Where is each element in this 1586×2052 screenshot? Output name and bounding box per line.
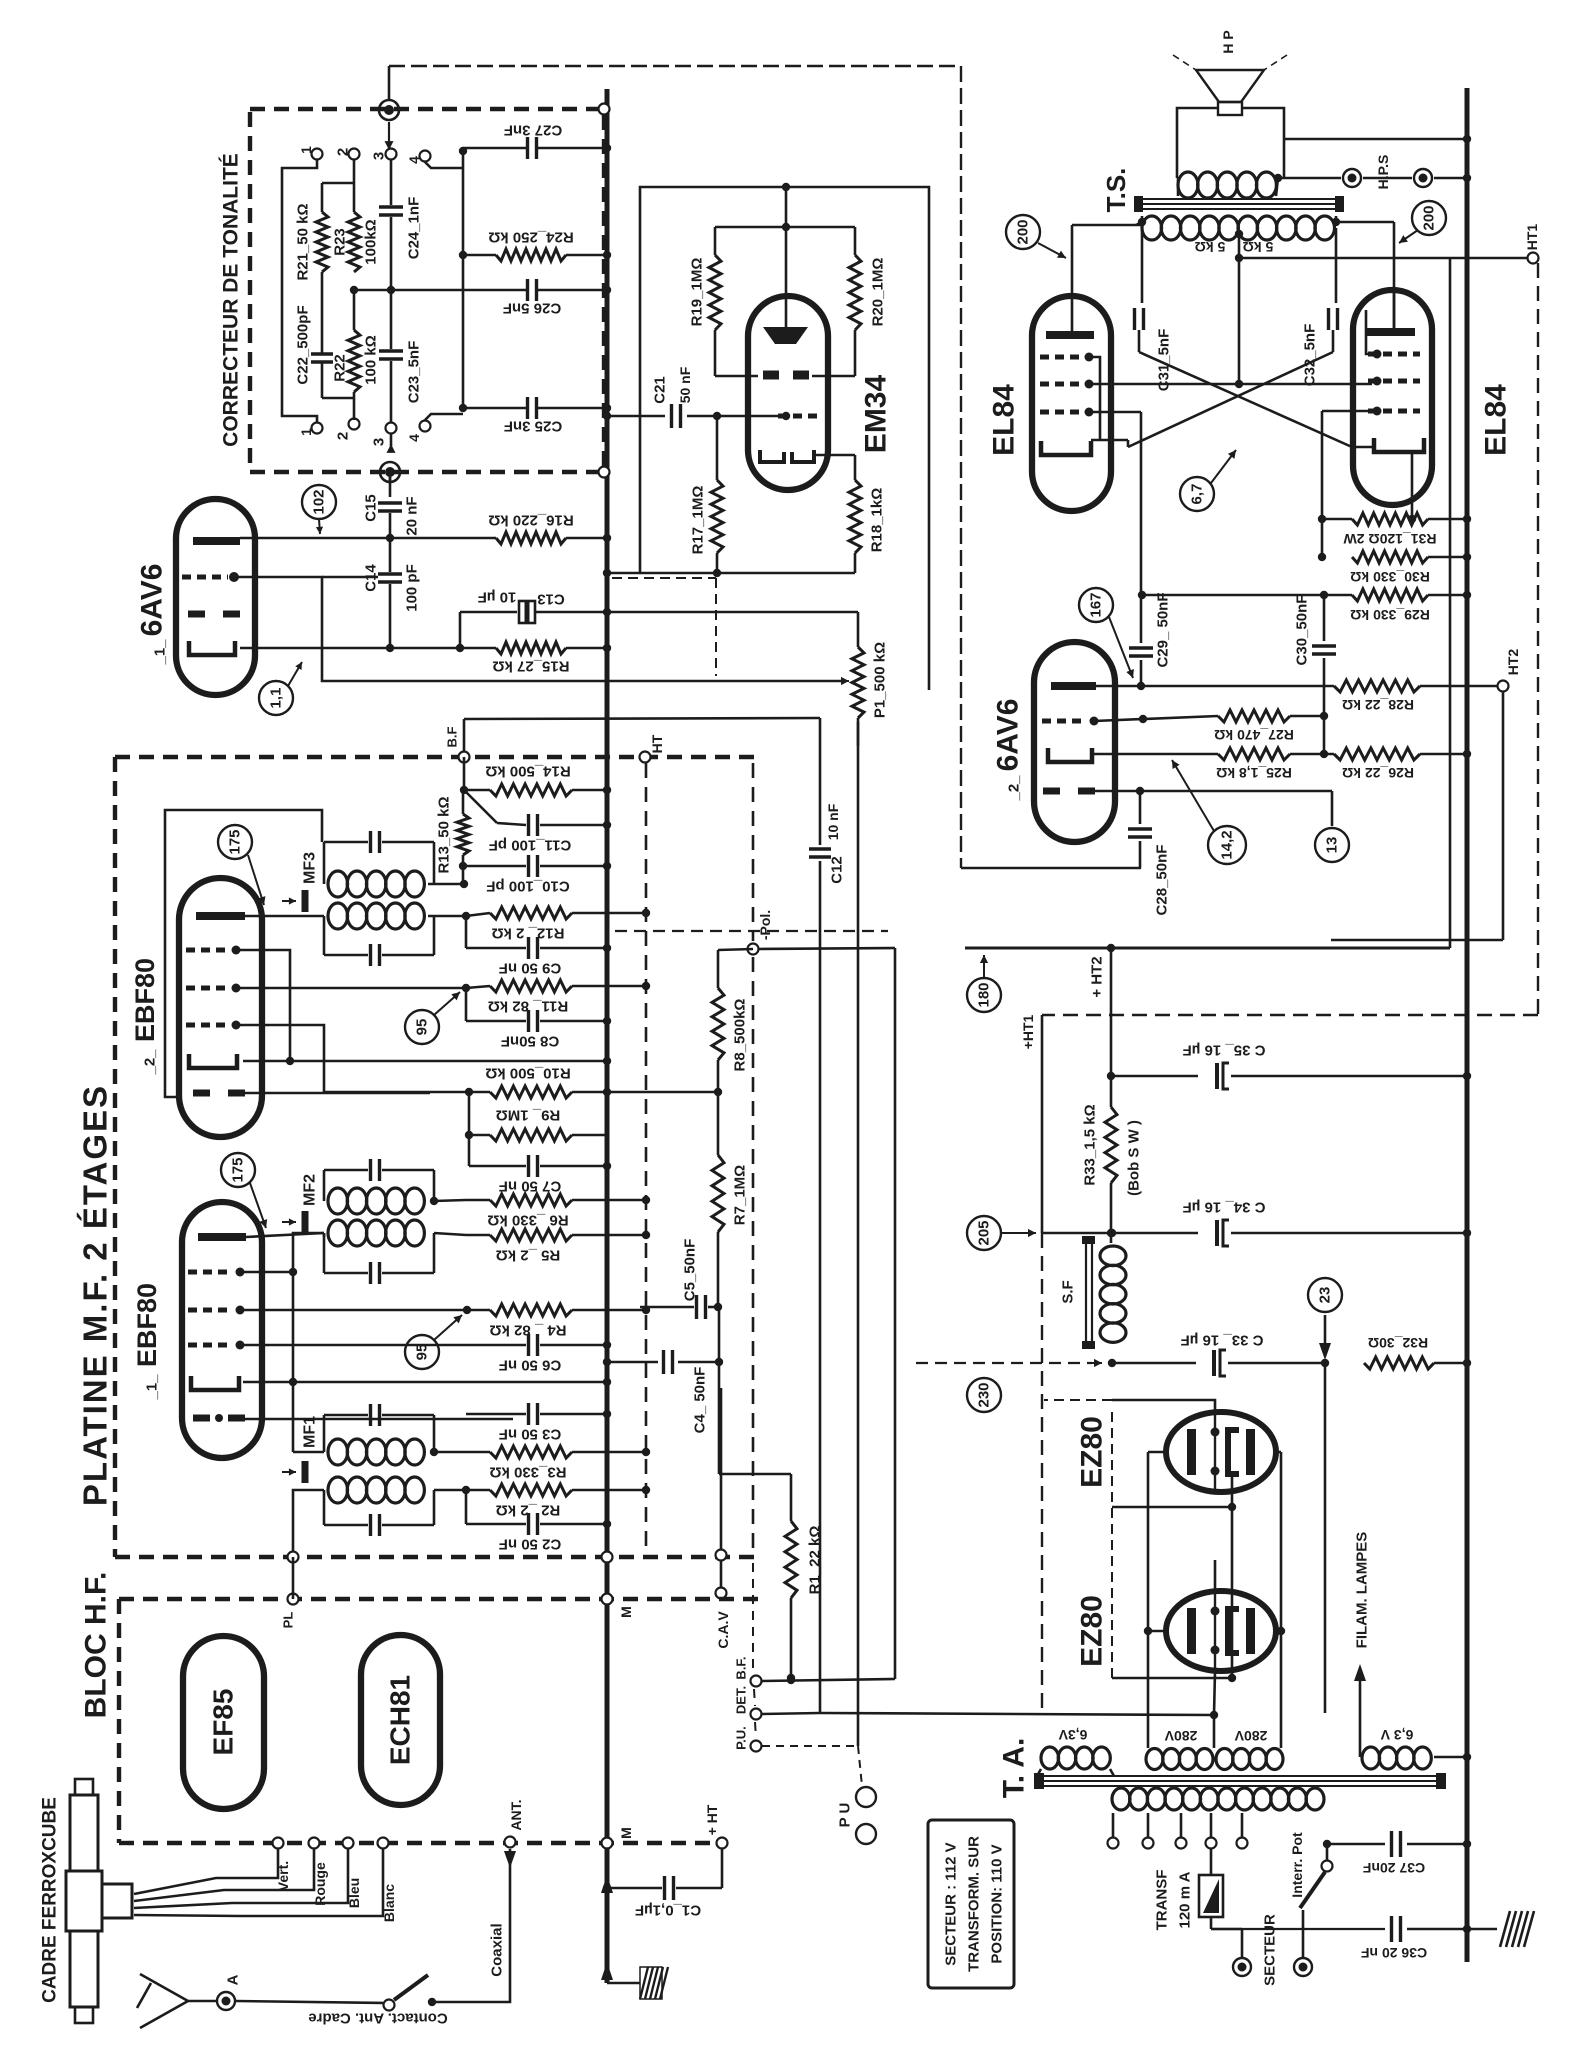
circled 13	[1331, 791, 1334, 826]
svg-text:R21_50 kΩ: R21_50 kΩ	[295, 203, 312, 280]
svg-text:R9_ 1MΩ: R9_ 1MΩ	[496, 1107, 561, 1124]
wire plate line EBF80-1	[246, 1233, 324, 1237]
svg-text:R14_500 kΩ: R14_500 kΩ	[485, 763, 570, 780]
wire TA 280V center	[1213, 1715, 1216, 1748]
svg-text:BLOC H.F.: BLOC H.F.	[80, 1572, 113, 1719]
wire +HT2 rail	[965, 947, 1450, 950]
wire C4 C5 R7 junction drop	[718, 1307, 721, 1474]
capacitor C4 50nF	[607, 1361, 658, 1364]
switch contact ant cadre	[384, 2000, 395, 2011]
svg-text:P.U.: P.U.	[734, 1726, 749, 1750]
grid3 EL84-2	[1368, 352, 1420, 357]
terminal HT1	[1528, 253, 1539, 264]
plug secteur 1	[1233, 1958, 1251, 1976]
terminal tap3	[1176, 1838, 1187, 1849]
circled 14,2	[1208, 826, 1246, 864]
wire cathode line EBF80-1	[243, 1381, 607, 1384]
svg-text:95: 95	[414, 1019, 431, 1036]
deflector pins EM34	[763, 371, 779, 380]
svg-text:C21: C21	[652, 376, 669, 404]
wire 6.3V left filament rise	[1359, 1672, 1362, 1757]
plate bar 6AV6-1	[193, 537, 240, 545]
terminal Bleu	[343, 1838, 354, 1849]
grid 6AV6-2	[1042, 719, 1086, 724]
capacitor C36 20nF	[1390, 1916, 1393, 1942]
wire MF3 secondary out	[428, 915, 466, 918]
capacitor C2 50nF	[465, 1490, 468, 1524]
svg-text:C7 50 nF: C7 50 nF	[499, 1178, 562, 1195]
capacitor C29 50nF	[1129, 646, 1153, 650]
jack PU 2	[856, 1824, 876, 1844]
tube EF85	[183, 1636, 264, 1809]
capacitor C11 100pF	[464, 790, 497, 823]
circled 205	[967, 1216, 1001, 1250]
wire EZ80 left heater rail	[1111, 1412, 1113, 1678]
svg-text:C9 50 nF: C9 50 nF	[499, 960, 562, 977]
svg-text:R22: R22	[332, 354, 349, 382]
grid3 EL84-1	[1040, 355, 1082, 360]
wire speaker frame	[1177, 108, 1219, 178]
arrow 175 top	[248, 855, 264, 905]
wire -Pol BF run	[894, 948, 897, 1679]
wire grid link 6AV6-1	[234, 577, 843, 681]
terminal BF on box edge	[459, 752, 470, 763]
wire bus bottom arrows	[601, 1875, 613, 1893]
svg-text:Coaxial: Coaxial	[489, 1923, 506, 1976]
grid 6AV6-1	[182, 575, 228, 580]
wire EBF80-2 plate loop	[165, 810, 322, 1097]
svg-text:50 nF: 50 nF	[677, 366, 693, 403]
terminal BF bottom	[751, 1676, 762, 1687]
label secteur box	[1195, 2000, 1197, 2002]
arrow 167	[1109, 617, 1133, 678]
capacitor C3 50nF	[466, 1413, 526, 1416]
capacitor C32 5nF	[1335, 228, 1338, 303]
svg-text:+HT1: +HT1	[1020, 1014, 1036, 1049]
capacitor C34 16uF	[1042, 1232, 1198, 1235]
svg-text:C5_50nF: C5_50nF	[682, 1239, 699, 1302]
svg-text:R16_220 kΩ: R16_220 kΩ	[488, 512, 573, 529]
svg-text:C2 50 nF: C2 50 nF	[499, 1536, 562, 1553]
wire cathode line 6AV6-2	[1092, 753, 1218, 756]
svg-text:T.S.: T.S.	[1101, 168, 1131, 213]
terminal HPS 2	[1414, 169, 1432, 187]
svg-text:HT1: HT1	[1524, 224, 1540, 251]
resistor R14 500k	[464, 789, 490, 792]
svg-text:100 pF: 100 pF	[404, 564, 421, 612]
wire cadre lead blanc	[134, 1849, 383, 1916]
resistor R21 50k	[316, 212, 328, 272]
wire C13 to bus and P1 top	[535, 611, 607, 614]
wire switch line to C37	[1327, 1843, 1385, 1846]
svg-text:C10_100 pF: C10_100 pF	[486, 878, 569, 895]
resistor R24 250k	[463, 254, 496, 257]
svg-text:C24_1nF: C24_1nF	[406, 197, 423, 260]
svg-text:PLATINE M.F. 2 ÉTAGES: PLATINE M.F. 2 ÉTAGES	[77, 1084, 114, 1506]
circled 200 right	[1412, 201, 1446, 235]
svg-text:_2_: _2_	[142, 1049, 159, 1076]
wire BF pickup line	[464, 718, 820, 719]
grid3 EBF80-2	[186, 986, 230, 991]
wire left rail terminals 1	[282, 160, 317, 422]
terminal Rouge	[309, 1838, 320, 1849]
terminal M lower	[602, 1594, 613, 1605]
wire HT1 feed	[1239, 257, 1527, 260]
svg-text:M: M	[618, 1827, 634, 1839]
svg-text:EZ80: EZ80	[1076, 1595, 1109, 1667]
svg-text:DET.: DET.	[734, 1686, 749, 1714]
cathode EL84-1	[1041, 441, 1091, 455]
resistor R9 1M	[468, 1092, 471, 1135]
resistor R15 27k	[496, 642, 566, 654]
svg-text:3: 3	[371, 152, 388, 160]
tube 6AV6-2	[1034, 642, 1115, 842]
arrow 14,2	[1172, 760, 1214, 831]
svg-text:C28_50nF: C28_50nF	[1154, 845, 1171, 916]
capacitor C13 10uF electrolytic	[519, 601, 535, 623]
svg-text:R8_500kΩ: R8_500kΩ	[732, 999, 749, 1072]
capacitor C7 50nF	[468, 1135, 471, 1166]
svg-text:C3 50 nF: C3 50 nF	[499, 1426, 562, 1443]
wire dash filter left rail lower	[1041, 1233, 1043, 1712]
filament 6AV6-1	[188, 611, 205, 618]
svg-text:R7_1MΩ: R7_1MΩ	[732, 1165, 749, 1225]
coil TS secondary	[1178, 172, 1198, 198]
wire cathode line EBF80-2	[243, 1060, 607, 1063]
svg-text:C8 50nF: C8 50nF	[501, 1033, 559, 1050]
terminal tap1	[1108, 1838, 1119, 1849]
wire switch top	[1326, 1844, 1329, 1860]
capacitor C6 50nF	[527, 1334, 530, 1356]
wire 6.3V right to bus	[1434, 1756, 1467, 1759]
svg-text:R5 _2 kΩ: R5 _2 kΩ	[496, 1247, 561, 1264]
wire MF3 primary out	[428, 883, 464, 886]
circled 230	[967, 1378, 1001, 1412]
wire R17 R18 bottom tie	[607, 572, 855, 575]
grid EM34	[778, 414, 818, 419]
svg-text:SECTEUR : 112 V: SECTEUR : 112 V	[943, 1842, 960, 1965]
svg-text:MF1: MF1	[302, 1416, 319, 1448]
plate bar EL84-2	[1367, 328, 1415, 336]
wire cadre lead rouge	[134, 1849, 314, 1901]
tube EL84-1	[1032, 296, 1111, 511]
node junction tone box top	[379, 100, 399, 120]
terminal HPS 1	[1343, 169, 1361, 187]
wire g1 EBF80-1	[240, 1271, 293, 1274]
terminal tap4	[1206, 1838, 1217, 1849]
plate bar EBF80-2	[196, 912, 245, 920]
tube EBF80-2	[179, 878, 262, 1137]
arrow 205	[1002, 1232, 1036, 1234]
cathode EBF80-2	[189, 1054, 237, 1068]
ferrite rod antenna	[70, 1795, 98, 1871]
svg-text:R26_22 kΩ: R26_22 kΩ	[1342, 765, 1414, 781]
capacitor C30 50nF	[1323, 595, 1326, 641]
svg-text:6,3 V: 6,3 V	[1380, 1727, 1413, 1743]
wire cathode EL84-2 link	[1352, 446, 1372, 449]
coil TA primary	[1112, 1788, 1130, 1810]
resistor R13 50k	[457, 814, 469, 855]
arrow 95 bottom	[434, 1315, 462, 1340]
svg-text:R30_330 kΩ: R30_330 kΩ	[1350, 569, 1430, 585]
capacitor C28 50nF	[1139, 791, 1142, 824]
arrow 180	[983, 955, 985, 977]
svg-text:2: 2	[335, 148, 352, 156]
resistor R32 30ohm	[1364, 1357, 1434, 1369]
terminal tap2	[1143, 1838, 1154, 1849]
wire HPS to bus	[1363, 177, 1412, 180]
svg-text:1: 1	[298, 428, 314, 436]
wire heater line EBF80-1	[245, 1418, 513, 1421]
wire terminal4 rail	[425, 162, 463, 168]
svg-text:SECTEUR: SECTEUR	[1262, 1914, 1279, 1986]
arrow 95 top	[434, 992, 460, 1015]
box platine MF	[115, 755, 755, 759]
grid2 EBF80-1	[188, 1343, 232, 1348]
wire dash power boundary	[615, 930, 888, 932]
svg-text:10 µF: 10 µF	[478, 589, 517, 606]
jack PU 1	[856, 1787, 876, 1807]
svg-text:2: 2	[335, 432, 352, 440]
circled 95 top	[405, 1010, 439, 1044]
wire cathode line 6AV6-1	[240, 647, 460, 650]
coil TS primary	[1142, 216, 1162, 240]
grid1 EBF80-2	[186, 948, 230, 953]
svg-text:R25_1,8 kΩ: R25_1,8 kΩ	[1216, 765, 1292, 781]
wire g2 line EBF80-1	[240, 1344, 526, 1347]
svg-text:EL84: EL84	[1480, 384, 1513, 456]
resistor R2 2k	[434, 1489, 466, 1492]
resistor R4 82k	[467, 1309, 490, 1312]
capacitor C15 20nF	[389, 472, 392, 497]
capacitor C31 5nF	[1141, 228, 1144, 303]
resistor R25 1.8k	[1218, 748, 1290, 760]
plug secteur 2	[1294, 1958, 1312, 1976]
svg-text:Interr. Pot: Interr. Pot	[1289, 1832, 1305, 1898]
svg-text:H P: H P	[1220, 30, 1236, 53]
wire filament line 6AV6-2	[1084, 790, 1332, 793]
capacitor C1 0.1uF	[607, 1887, 662, 1890]
wire g1 drop EBF80-1	[292, 1272, 295, 1452]
svg-text:EF85: EF85	[208, 1689, 239, 1756]
capacitor C5 50nF	[640, 1306, 694, 1309]
svg-text:R13_50 kΩ: R13_50 kΩ	[436, 796, 453, 873]
svg-text:3: 3	[371, 438, 388, 446]
svg-text:6AV6: 6AV6	[136, 564, 169, 637]
grid3 EBF80-1	[188, 1308, 232, 1313]
wire -Pol dash lower run	[752, 1563, 754, 1673]
capacitor C37 20nF	[1390, 1831, 1393, 1857]
wire TS right end to EL84-2 plate	[1335, 216, 1338, 222]
circled 175 bottom	[221, 1153, 255, 1187]
capacitor C22 500pF	[311, 352, 333, 356]
svg-text:5 kΩ: 5 kΩ	[1243, 239, 1274, 255]
terminal MF1 ground	[288, 1552, 299, 1563]
svg-text:R28_22 kΩ: R28_22 kΩ	[1342, 697, 1414, 713]
wire plate line EBF80-2	[245, 915, 324, 918]
cathode EM34	[760, 450, 814, 462]
resistor R19 1M	[709, 255, 721, 330]
capacitor C25 3nF	[463, 407, 526, 410]
terminal 3 top	[386, 149, 397, 160]
circled 102	[302, 485, 336, 519]
terminal tone box edge top right	[599, 104, 610, 115]
terminal 4 top	[420, 151, 431, 162]
resistor R30 330k	[1352, 551, 1428, 563]
terminal +HT	[717, 1838, 728, 1849]
tube EZ80 lower	[1166, 1591, 1276, 1671]
svg-text:T. A.: T. A.	[998, 1738, 1031, 1799]
svg-text:C27 3nF: C27 3nF	[504, 122, 562, 139]
wire filter left rail	[1041, 1015, 1044, 1233]
svg-text:R6 _330 kΩ: R6 _330 kΩ	[487, 1212, 568, 1229]
resistor R23	[348, 212, 360, 272]
grid2 EBF80-2	[186, 1023, 230, 1028]
wire EZ80 cathode link	[1112, 1506, 1232, 1509]
resistor R12 2k	[466, 913, 490, 916]
svg-text:Contact. Ant. Cadre: Contact. Ant. Cadre	[308, 2010, 447, 2027]
svg-text:5 kΩ: 5 kΩ	[1195, 239, 1226, 255]
terminal CAV 1	[716, 1550, 727, 1561]
svg-text:MF3: MF3	[302, 852, 319, 884]
wire 6AV6-2 stage bottom edge	[961, 867, 1141, 870]
wire C36 line	[1211, 1928, 1385, 1930]
wire top dash-dot rail	[389, 65, 961, 67]
wire arrow into tone box	[388, 122, 390, 150]
capacitor C33 16uF	[1112, 1362, 1196, 1365]
tube EL84-2	[1353, 290, 1432, 505]
wire TS center tap	[1238, 234, 1241, 384]
ground main bus	[607, 1982, 640, 1985]
svg-text:TRANSFORM. SUR: TRANSFORM. SUR	[966, 1836, 983, 1972]
terminal 4 bottom	[420, 421, 431, 432]
svg-text:P1_500 kΩ: P1_500 kΩ	[872, 642, 889, 718]
resistor R7 1M	[712, 1155, 724, 1232]
svg-text:POSITION: 110 V: POSITION: 110 V	[989, 1844, 1006, 1963]
svg-text:6AV6: 6AV6	[992, 699, 1025, 772]
terminal A	[217, 1992, 235, 2010]
box secteur 112V	[928, 1820, 1014, 1988]
screen line EL84s	[1089, 383, 1372, 386]
node R23 bottom tie	[354, 289, 391, 292]
svg-text:R32_30Ω: R32_30Ω	[1368, 1335, 1428, 1351]
svg-text:CORRECTEUR DE TONALITÉ: CORRECTEUR DE TONALITÉ	[220, 153, 243, 447]
wire PL link	[292, 1557, 295, 1599]
svg-text:+ HT: + HT	[704, 1804, 720, 1835]
wire EZ80 plate left rail	[1148, 1451, 1166, 1454]
resistor R10 500k	[490, 1086, 572, 1098]
arrow from 11	[288, 662, 302, 686]
wire dash-dot vertical right of EM34	[960, 66, 962, 868]
filament EBF80-1	[193, 1415, 210, 1422]
wire cross diagonal B	[1128, 352, 1333, 447]
wire MF1 secondary left down	[293, 1490, 324, 1551]
terminal HT2	[1498, 681, 1509, 692]
coil TA 280V second	[1216, 1749, 1233, 1770]
svg-text:R20_1MΩ: R20_1MΩ	[870, 258, 887, 327]
coil TA 6.3V left	[1041, 1747, 1059, 1769]
svg-text:280V: 280V	[1164, 1728, 1197, 1744]
tube 6AV6-1	[176, 499, 255, 695]
svg-text:EM34: EM34	[860, 375, 893, 454]
wire arrow out tone box	[390, 444, 392, 452]
svg-text:175: 175	[230, 1157, 247, 1182]
svg-text:C1_0,1µF: C1_0,1µF	[635, 1902, 701, 1919]
resistor R31 120ohm 2W	[1322, 518, 1352, 521]
wire R19 R20 top tie	[715, 226, 855, 229]
wire EZ80 top link	[1112, 1400, 1215, 1412]
capacitor C10 100pF	[463, 865, 526, 868]
svg-text:MF2: MF2	[302, 1174, 319, 1206]
svg-text:200: 200	[1421, 205, 1438, 230]
core MF1	[282, 1471, 296, 1473]
grid2 EL84-1	[1040, 382, 1082, 387]
wire g2 EBF80-2 drop	[236, 1025, 324, 1092]
svg-text:205: 205	[976, 1220, 993, 1245]
svg-text:1: 1	[298, 146, 314, 154]
arrow from 102	[319, 519, 320, 534]
target electrode EM34	[763, 327, 808, 344]
circled 95 bottom	[405, 1335, 439, 1369]
wire cadre lead bleu	[134, 1849, 348, 1908]
filament EBF80-2	[193, 1090, 210, 1097]
capacitor C27 3nF	[463, 147, 526, 150]
arrow 200 left	[1038, 243, 1066, 258]
svg-text:100 kΩ: 100 kΩ	[363, 335, 380, 385]
wire cross diagonal A	[1139, 352, 1352, 447]
wire -Pol link	[759, 948, 895, 949]
resistor R17 1M	[711, 480, 723, 553]
svg-text:C 35_ 16 µF: C 35_ 16 µF	[1183, 1042, 1266, 1059]
svg-text:6,3V: 6,3V	[1058, 1727, 1087, 1743]
terminal DET	[751, 1709, 762, 1720]
capacitor C8 50nF	[465, 988, 468, 1021]
wire filament drop	[1324, 1363, 1327, 1713]
ground right bus	[1467, 1928, 1497, 1931]
svg-text:C 34_ 16 µF: C 34_ 16 µF	[1183, 1199, 1266, 1216]
svg-text:14,2: 14,2	[1219, 830, 1236, 859]
wire PU dash link	[762, 1745, 858, 1747]
svg-text:R3_330 kΩ: R3_330 kΩ	[489, 1464, 566, 1481]
svg-text:4: 4	[406, 434, 422, 442]
box EM34 stage	[640, 187, 929, 690]
wire DET to center tap	[820, 1713, 1213, 1715]
svg-text:1,1: 1,1	[268, 688, 285, 709]
cathode 6AV6-2	[1048, 748, 1092, 762]
wire antenna to switch	[236, 2001, 383, 2003]
svg-text:TRANSF: TRANSF	[1154, 1870, 1171, 1931]
wire cadre lead vert	[134, 1849, 278, 1894]
svg-text:C32_5nF: C32_5nF	[1302, 324, 1319, 387]
svg-text:C.A.V: C.A.V	[715, 1611, 731, 1649]
grid1 EL84-2	[1368, 409, 1420, 414]
svg-text:PL: PL	[281, 1612, 296, 1629]
cathode EL84-2	[1374, 438, 1424, 452]
svg-text:10 nF: 10 nF	[825, 803, 841, 840]
resistor R16 220k	[496, 532, 566, 544]
wire TA taps	[1112, 1813, 1115, 1837]
svg-text:C15: C15	[363, 494, 380, 522]
wire BF line bottom	[762, 1679, 895, 1681]
tube ECH81	[361, 1635, 440, 1805]
svg-text:R29_330 kΩ: R29_330 kΩ	[1350, 607, 1430, 623]
arrow filament lampes	[1354, 1664, 1366, 1681]
svg-text:6,7: 6,7	[1189, 484, 1206, 505]
arrow 200 right	[1399, 230, 1418, 243]
switch interr pot	[1302, 1929, 1305, 1957]
resistor R28 22k	[1334, 680, 1420, 692]
resistor R27 470k	[1218, 710, 1290, 722]
